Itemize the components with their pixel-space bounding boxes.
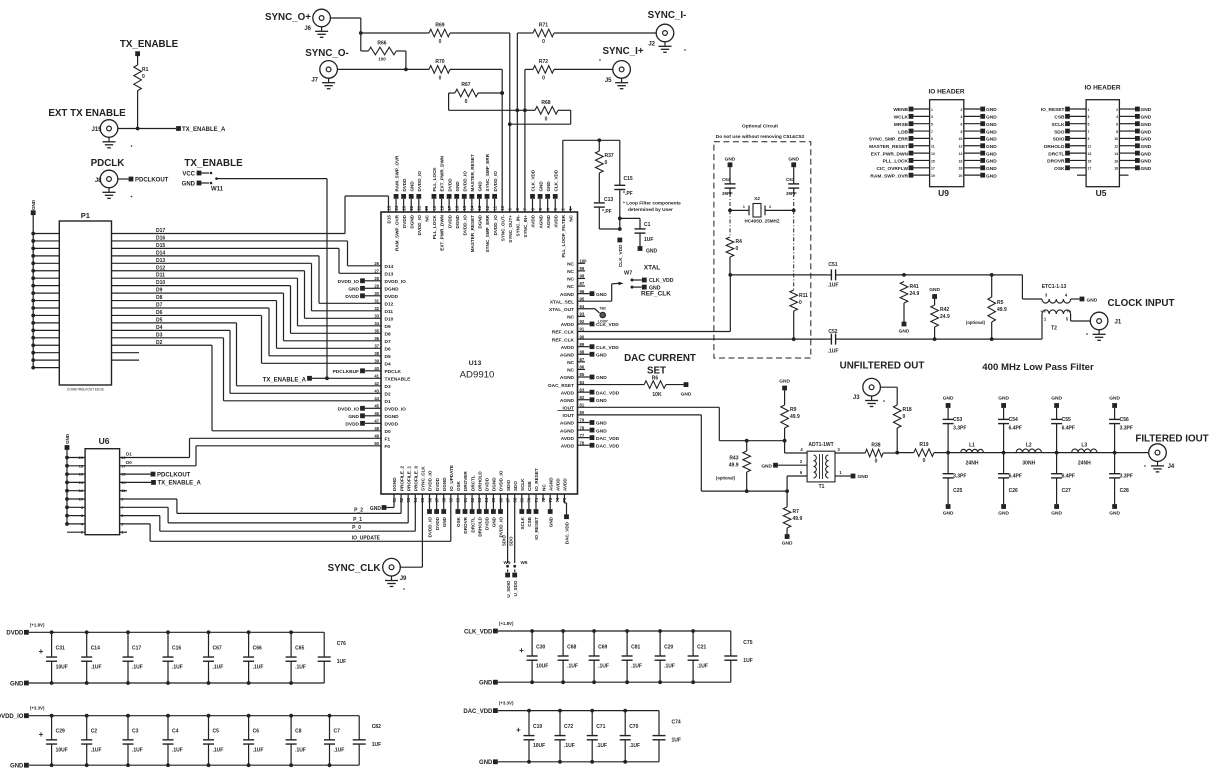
ground J4 bbox=[1144, 461, 1164, 472]
U5 left pin DRHOLD bbox=[1044, 143, 1091, 150]
svg-text:GND: GND bbox=[1141, 166, 1152, 172]
ground C26 (square) bbox=[998, 504, 1009, 516]
svg-text:GND: GND bbox=[409, 181, 414, 192]
wire D7 bus (P1 to U13 pin 38) bbox=[112, 303, 382, 356]
svg-text:24.9: 24.9 bbox=[940, 314, 950, 320]
svg-text:J5: J5 bbox=[605, 78, 612, 84]
svg-text:GND: GND bbox=[492, 516, 497, 527]
wire D4 bus (P1 to U13 pin 43) bbox=[112, 325, 382, 393]
U9 right pin GND bbox=[959, 151, 998, 158]
U13 bottom pin 52 PROFILE_2 bbox=[399, 466, 404, 503]
svg-text:SYNC_I-: SYNC_I- bbox=[648, 10, 687, 21]
capacitor C6 bbox=[243, 716, 263, 766]
svg-text:SYNC_SMP_ERR: SYNC_SMP_ERR bbox=[869, 137, 909, 143]
svg-text:GND: GND bbox=[929, 287, 940, 293]
svg-text:AVDD: AVDD bbox=[561, 390, 575, 396]
svg-text:AVDD: AVDD bbox=[561, 345, 575, 351]
svg-text:D4: D4 bbox=[385, 362, 391, 368]
svg-text:D2: D2 bbox=[385, 392, 391, 398]
svg-text:CIC_OVRFLW: CIC_OVRFLW bbox=[877, 166, 909, 172]
connector J6 SYNC_O+ bbox=[265, 9, 330, 32]
wire D12 bus (P1 to U13 pin 33) bbox=[112, 265, 382, 318]
svg-text:CLK_VDD: CLK_VDD bbox=[596, 345, 619, 351]
svg-text:AGND: AGND bbox=[560, 421, 575, 427]
svg-text:6.4PF: 6.4PF bbox=[1009, 474, 1022, 480]
svg-text:GND: GND bbox=[1141, 137, 1152, 143]
svg-text:2: 2 bbox=[1116, 108, 1118, 112]
U13 top pin 7 SYNC_IN+ bbox=[523, 208, 528, 238]
capacitor C19 bbox=[516, 711, 545, 762]
wire D9 bus (P1 to U13 pin 36) bbox=[112, 288, 382, 341]
svg-text:10UF: 10UF bbox=[56, 665, 68, 671]
svg-text:.1UF: .1UF bbox=[253, 665, 264, 671]
svg-text:C21: C21 bbox=[697, 645, 706, 651]
wire U6 left common bus bbox=[66, 450, 68, 526]
svg-text:100: 100 bbox=[378, 57, 386, 62]
svg-text:C1: C1 bbox=[644, 222, 651, 228]
svg-text:J3: J3 bbox=[853, 395, 860, 401]
svg-text:1UF: 1UF bbox=[672, 738, 681, 744]
svg-text:W5: W5 bbox=[504, 560, 511, 565]
svg-text:DVDD_IO: DVDD_IO bbox=[462, 171, 467, 192]
capacitor C75 bbox=[724, 631, 752, 682]
svg-text:R69: R69 bbox=[435, 23, 444, 29]
svg-text:EXT TX ENABLE: EXT TX ENABLE bbox=[48, 108, 126, 119]
U13 left pin 35 D8 bbox=[374, 329, 391, 338]
svg-text:CSB: CSB bbox=[527, 481, 532, 491]
wire TX_ENABLE_A stub from J15 bbox=[118, 126, 226, 133]
svg-text:GND: GND bbox=[182, 182, 196, 188]
svg-text:6.4PF: 6.4PF bbox=[1009, 426, 1022, 432]
U9 right pin GND bbox=[959, 165, 998, 172]
svg-text:12: 12 bbox=[959, 145, 963, 149]
svg-text:DVDD_IO: DVDD_IO bbox=[338, 279, 360, 285]
svg-text:DVDD: DVDD bbox=[402, 214, 407, 228]
svg-text:L3: L3 bbox=[1081, 443, 1087, 449]
net label CLK_VDD (bank CLK_VDD) bbox=[464, 621, 514, 635]
svg-text:DAC_VDD: DAC_VDD bbox=[596, 436, 620, 442]
svg-text:GND: GND bbox=[1109, 511, 1120, 517]
svg-text:TX_ENABLE: TX_ENABLE bbox=[120, 39, 179, 50]
svg-text:LDB: LDB bbox=[898, 129, 908, 135]
svg-text:16: 16 bbox=[959, 159, 963, 163]
capacitor C3 bbox=[123, 716, 143, 766]
inductor L3 bbox=[1072, 443, 1097, 467]
svg-text:J8: J8 bbox=[95, 178, 102, 184]
U13 top pin 3 AVDD bbox=[553, 169, 559, 228]
svg-text:C20: C20 bbox=[664, 645, 673, 651]
U13 right pin 85 AGND bbox=[560, 372, 607, 381]
U13 bottom pin 59 IO_UPDATE bbox=[449, 465, 454, 502]
svg-text:GND: GND bbox=[761, 463, 772, 469]
svg-text:GND: GND bbox=[986, 166, 997, 172]
wire P_1 net (U6 pin 7 to U13 pin 53) bbox=[120, 494, 409, 523]
U9 right pin GND bbox=[961, 114, 998, 121]
U9 right pin GND bbox=[959, 143, 998, 150]
svg-text:DGND: DGND bbox=[409, 214, 414, 228]
svg-text:DGND: DGND bbox=[385, 287, 400, 293]
svg-text:+: + bbox=[519, 646, 524, 655]
capacitor C72 bbox=[555, 711, 575, 762]
svg-text:DRCTL: DRCTL bbox=[470, 517, 475, 533]
svg-text:Do not use without removing C5: Do not use without removing C51&C52 bbox=[716, 134, 805, 140]
svg-text:DVDD: DVDD bbox=[447, 178, 452, 192]
svg-text:*.PF: *.PF bbox=[623, 191, 633, 197]
svg-text:OSK: OSK bbox=[456, 480, 461, 491]
svg-text:.1UF: .1UF bbox=[334, 747, 345, 753]
svg-text:C29: C29 bbox=[56, 728, 65, 734]
svg-text:D12: D12 bbox=[385, 302, 394, 308]
svg-text:REF_CLK: REF_CLK bbox=[552, 337, 575, 343]
wire P1 left common bus bbox=[32, 215, 34, 368]
wire IOUT pin 81 to T1 node bbox=[578, 407, 787, 442]
resistor R71 bbox=[533, 23, 554, 46]
svg-text:DGND: DGND bbox=[455, 214, 460, 228]
svg-text:IO_RESET: IO_RESET bbox=[1041, 107, 1065, 113]
svg-text:NC: NC bbox=[567, 368, 574, 374]
svg-text:D13: D13 bbox=[385, 272, 394, 278]
svg-text:D4: D4 bbox=[156, 325, 163, 331]
U13 top pin 2 PLL_LOOP_FILTER bbox=[561, 208, 566, 258]
crystal X2 HC49SD_25MHZ bbox=[728, 196, 796, 224]
svg-text:TXENABLE: TXENABLE bbox=[385, 377, 412, 383]
svg-text:10K: 10K bbox=[652, 392, 662, 398]
svg-text:IO_RESET: IO_RESET bbox=[534, 517, 539, 540]
U5 right pin GND bbox=[1114, 143, 1151, 150]
svg-text:GND: GND bbox=[1141, 151, 1152, 157]
U13 top pin 25 D15 bbox=[386, 205, 391, 223]
U13 left pin 28 DVDD_IO bbox=[338, 276, 406, 285]
svg-text:D2: D2 bbox=[156, 340, 163, 346]
svg-text:4: 4 bbox=[1116, 115, 1118, 119]
U13 bottom pin 60 OSK bbox=[456, 480, 462, 527]
capacitor C74 bbox=[653, 711, 681, 762]
svg-text:IO_UPDATE: IO_UPDATE bbox=[449, 465, 454, 491]
svg-text:IO HEADER: IO HEADER bbox=[928, 89, 964, 96]
U13 left pin 27 D13 bbox=[374, 269, 393, 278]
svg-text:D0: D0 bbox=[126, 460, 132, 465]
U6 right pin 19 wire (D1 net to U13 pin 49) bbox=[120, 438, 381, 460]
svg-text:C56: C56 bbox=[1120, 417, 1129, 423]
U5 right pin GND bbox=[1116, 107, 1152, 114]
U13 top pin 8 SYNC_IN- bbox=[515, 208, 520, 237]
svg-text:C76: C76 bbox=[337, 641, 346, 647]
U13 left pin 44 D1 bbox=[374, 396, 391, 405]
svg-text:NC: NC bbox=[567, 360, 574, 366]
svg-text:20: 20 bbox=[79, 455, 84, 460]
svg-text:SYNC_O-: SYNC_O- bbox=[305, 48, 349, 59]
svg-text:U5: U5 bbox=[1096, 188, 1107, 198]
resistor R1 bbox=[134, 56, 149, 129]
svg-text:D11: D11 bbox=[385, 309, 394, 315]
svg-text:GND: GND bbox=[779, 379, 790, 385]
svg-text:.1UF: .1UF bbox=[828, 283, 839, 289]
svg-text:49.9: 49.9 bbox=[729, 463, 739, 469]
capacitor C29 bbox=[39, 716, 68, 766]
net label GND (bank DVDD_IO) bbox=[10, 763, 29, 770]
U6 left pin 12 bbox=[65, 488, 85, 493]
svg-text:AGND: AGND bbox=[560, 352, 575, 358]
svg-text:.1UF: .1UF bbox=[629, 743, 640, 749]
U6 right pin 11 stub bbox=[120, 488, 127, 493]
svg-text:18: 18 bbox=[79, 463, 84, 468]
svg-text:C55: C55 bbox=[1062, 417, 1071, 423]
svg-text:SCLK: SCLK bbox=[520, 478, 525, 491]
capacitor C63 bbox=[786, 167, 799, 290]
svg-text:DGND: DGND bbox=[392, 477, 397, 491]
svg-text:D17: D17 bbox=[156, 228, 165, 234]
U9 left pin PLL_LOCK bbox=[883, 158, 935, 165]
svg-text:DROVR: DROVR bbox=[463, 516, 468, 533]
svg-text:D15: D15 bbox=[156, 243, 165, 249]
svg-text:L2: L2 bbox=[1026, 443, 1032, 449]
U13 top pin 6 AVDD bbox=[530, 169, 536, 228]
wire U13 pin 2 PLL_LOOP_FILTER up bbox=[563, 138, 620, 212]
U13 bottom pin 71 IO_RESET bbox=[534, 468, 540, 540]
svg-text:17: 17 bbox=[121, 463, 126, 468]
svg-text:C63: C63 bbox=[786, 177, 795, 182]
U13 bottom pin 72 NC bbox=[541, 484, 546, 503]
jumper W7 XTAL select bbox=[578, 271, 674, 302]
svg-text:6: 6 bbox=[1116, 123, 1118, 127]
svg-text:T1: T1 bbox=[819, 484, 825, 490]
capacitor C71 bbox=[587, 711, 607, 762]
svg-text:C15: C15 bbox=[624, 176, 633, 182]
svg-text:TX_ENABLE: TX_ENABLE bbox=[184, 158, 243, 169]
U13 right pin 98 NC bbox=[567, 274, 585, 283]
svg-text:R42: R42 bbox=[940, 307, 949, 313]
U5 right pin GND bbox=[1114, 165, 1151, 172]
U5 right pin GND bbox=[1116, 114, 1152, 121]
svg-text:.1UF: .1UF bbox=[132, 747, 143, 753]
svg-text:SYNC_O+: SYNC_O+ bbox=[265, 12, 311, 23]
wire D16 bus (P1 to U13 pin 26) bbox=[112, 235, 382, 265]
svg-text:IO_UPDATE: IO_UPDATE bbox=[352, 535, 381, 541]
capacitor C82 bbox=[353, 716, 381, 766]
svg-text:GND: GND bbox=[479, 681, 493, 687]
connector J2 SYNC_I- bbox=[554, 10, 686, 48]
U5 right pin GND bbox=[1114, 136, 1151, 143]
svg-text:C17: C17 bbox=[132, 646, 141, 652]
svg-text:15: 15 bbox=[931, 159, 935, 163]
ground J7 bbox=[322, 78, 335, 89]
connector J7 SYNC_O- bbox=[305, 48, 349, 84]
U13 top pin 19 PLL_LOCK bbox=[432, 167, 438, 240]
resistor R4 bbox=[726, 237, 742, 275]
svg-text:DVDD: DVDD bbox=[485, 477, 490, 491]
svg-text:P_0: P_0 bbox=[352, 525, 361, 531]
svg-text:.1UF: .1UF bbox=[213, 665, 224, 671]
svg-text:R19: R19 bbox=[919, 442, 928, 448]
transformer T1 ADT1-1WT bbox=[778, 441, 865, 491]
U13 right pin 94 XTAL_OUT bbox=[549, 304, 585, 313]
wire PDCLKOUT stub from J8 bbox=[118, 177, 169, 184]
U13 left pin 43 D2 bbox=[374, 389, 391, 398]
test point LOOP at pin 94 bbox=[578, 307, 609, 324]
svg-text:GND: GND bbox=[986, 115, 997, 121]
svg-text:CLK_VDD: CLK_VDD bbox=[618, 244, 624, 267]
U13 right pin 96 AGND bbox=[560, 289, 607, 298]
svg-text:GND: GND bbox=[596, 428, 607, 434]
net label TX_ENABLE (top) bbox=[120, 39, 179, 56]
svg-text:SYNC_IN-: SYNC_IN- bbox=[516, 215, 521, 237]
U6 left pin 14 bbox=[65, 480, 85, 485]
U13 top pin 22 DGND bbox=[409, 181, 415, 229]
svg-text:.1UF: .1UF bbox=[172, 665, 183, 671]
svg-text:R38: R38 bbox=[871, 443, 880, 449]
U13 left pin 50 F0 bbox=[374, 441, 390, 450]
note loop filter bbox=[623, 201, 681, 214]
net label DAC_VDD (bank DAC_VDD) bbox=[463, 701, 514, 715]
svg-text:GND: GND bbox=[538, 181, 543, 192]
resistor R70 bbox=[429, 59, 450, 82]
capacitor C4 bbox=[163, 716, 183, 766]
wire P1 spare stub 16 bbox=[112, 352, 140, 354]
capacitor C31 bbox=[39, 632, 68, 683]
svg-text:6: 6 bbox=[961, 123, 963, 127]
svg-text:17: 17 bbox=[1088, 167, 1092, 171]
wire C51 node horizontal bbox=[730, 274, 826, 276]
ground C28 (square) bbox=[1109, 504, 1120, 516]
svg-text:GND: GND bbox=[1141, 159, 1152, 165]
svg-text:1UF: 1UF bbox=[743, 658, 752, 664]
svg-text:DVDD_IO: DVDD_IO bbox=[417, 215, 422, 236]
wire J6 to R69 node bbox=[330, 18, 429, 35]
svg-text:C28: C28 bbox=[1120, 488, 1129, 494]
ground R9 (square) bbox=[779, 379, 790, 391]
svg-text:.1UF: .1UF bbox=[132, 665, 143, 671]
svg-text:NC: NC bbox=[569, 214, 574, 221]
svg-text:GND: GND bbox=[986, 107, 997, 113]
U13 top pin 17 DVDD bbox=[447, 178, 453, 228]
svg-text:5: 5 bbox=[1088, 123, 1090, 127]
U13 top pin 12 SYNC_SMP_ERR bbox=[485, 153, 491, 252]
wire IOUT-bar pin 80 to T1 node bbox=[578, 415, 789, 493]
svg-text:CLK_VDD: CLK_VDD bbox=[531, 169, 536, 191]
U13 left pin 38 D5 bbox=[374, 351, 391, 360]
U13 top pin 18 EXT_PWR_DWN bbox=[439, 155, 445, 251]
svg-text:C19: C19 bbox=[533, 724, 542, 730]
svg-text:SDIO: SDIO bbox=[502, 535, 507, 546]
svg-text:DVDD: DVDD bbox=[435, 477, 440, 491]
svg-text:0: 0 bbox=[875, 459, 878, 465]
svg-text:DRCTL: DRCTL bbox=[470, 475, 475, 491]
ground R7 (square) bbox=[782, 534, 793, 546]
svg-text:R6: R6 bbox=[652, 376, 659, 382]
svg-text:400 MHz Low Pass Filter: 400 MHz Low Pass Filter bbox=[982, 362, 1094, 373]
wire P_0 net (U6 pin 5 to U13 pin 54) bbox=[120, 494, 416, 531]
wire DAC_VDD bottom rail bbox=[498, 760, 659, 764]
svg-text:.1UF: .1UF bbox=[253, 747, 264, 753]
svg-text:REF_CLK: REF_CLK bbox=[641, 291, 671, 298]
net label DAC_VDD at pin 75 (square) bbox=[564, 494, 570, 544]
svg-text:18: 18 bbox=[959, 167, 963, 171]
svg-text:AVDD: AVDD bbox=[553, 214, 558, 227]
wire P1 left pin stub row 5 + junction bbox=[31, 261, 59, 265]
svg-text:0: 0 bbox=[542, 75, 545, 81]
svg-text:C30: C30 bbox=[536, 645, 545, 651]
svg-text:C26: C26 bbox=[1009, 488, 1018, 494]
U13 bottom pin 55 SYNC_CLK bbox=[420, 466, 425, 503]
svg-text:DRHOLD: DRHOLD bbox=[477, 516, 482, 536]
capacitor C1 bbox=[620, 218, 654, 246]
resistor R11 bbox=[790, 290, 808, 341]
svg-text:DAC_VDD: DAC_VDD bbox=[463, 709, 493, 715]
wire filter main line bbox=[934, 452, 1149, 454]
ground R6 (square) bbox=[681, 382, 692, 397]
svg-text:EXT_PWR_DWN: EXT_PWR_DWN bbox=[440, 214, 445, 250]
U13 right pin 77 AVDD bbox=[561, 433, 620, 442]
U13 top pin 1 NC bbox=[568, 206, 573, 222]
svg-text:CLK_VDD: CLK_VDD bbox=[649, 278, 674, 284]
U9 left pin MRSB bbox=[894, 121, 933, 128]
svg-text:0: 0 bbox=[465, 99, 468, 105]
svg-text:P_2: P_2 bbox=[354, 507, 363, 513]
svg-text:GND: GND bbox=[986, 173, 997, 179]
svg-text:12: 12 bbox=[79, 488, 84, 493]
svg-text:.1UF: .1UF bbox=[596, 743, 607, 749]
wire CLK_VDD top rail bbox=[498, 629, 731, 633]
svg-text:.1UF: .1UF bbox=[295, 747, 306, 753]
svg-text:.1UF: .1UF bbox=[564, 743, 575, 749]
U5 right pin GND bbox=[1116, 129, 1152, 136]
svg-text:GND: GND bbox=[646, 249, 658, 255]
svg-text:U_SDO: U_SDO bbox=[513, 580, 518, 596]
U13 bottom pin 68 SDO bbox=[513, 481, 518, 503]
wire C51 to transformer T2 bbox=[841, 273, 1042, 299]
svg-text:GND: GND bbox=[1051, 511, 1062, 517]
svg-text:D16: D16 bbox=[156, 235, 165, 241]
U9 left pin SYNC_SMP_ERR bbox=[869, 136, 933, 143]
IC U9 IO HEADER body bbox=[928, 89, 964, 199]
ground C55 (square) bbox=[1051, 396, 1062, 408]
ground J5 bbox=[599, 59, 628, 88]
resistor R38 bbox=[865, 443, 897, 465]
svg-text:10UF: 10UF bbox=[533, 743, 545, 749]
resistor R43 bbox=[716, 441, 751, 491]
svg-text:EXT_PWR_DWN: EXT_PWR_DWN bbox=[440, 155, 445, 191]
capacitor C2 bbox=[81, 716, 101, 766]
svg-text:C5: C5 bbox=[213, 728, 220, 734]
svg-text:C25: C25 bbox=[953, 488, 962, 494]
svg-text:19: 19 bbox=[931, 174, 935, 178]
svg-text:14: 14 bbox=[1114, 152, 1118, 156]
svg-text:GND: GND bbox=[1141, 122, 1152, 128]
svg-text:C53: C53 bbox=[953, 417, 962, 423]
svg-text:3: 3 bbox=[1088, 115, 1090, 119]
capacitor C20 bbox=[655, 631, 675, 682]
svg-text:U_SDIO: U_SDIO bbox=[506, 580, 511, 598]
U13 top pin 5 AGND bbox=[538, 181, 544, 229]
U6 right pin 1 stub bbox=[120, 530, 127, 535]
wire D17 bus (P1 to U13 top pin 25) bbox=[112, 196, 389, 234]
svg-text:W11: W11 bbox=[211, 187, 224, 193]
ground J3 bbox=[865, 396, 885, 407]
svg-text:30NH: 30NH bbox=[1022, 461, 1035, 467]
U13 top pin 20 NC bbox=[424, 205, 429, 221]
U9 left pin RAM_SWP_OVR bbox=[870, 173, 934, 180]
svg-text:D1: D1 bbox=[126, 452, 132, 457]
svg-text:D9: D9 bbox=[156, 288, 163, 294]
svg-text:NC: NC bbox=[541, 484, 546, 491]
svg-text:0: 0 bbox=[799, 300, 802, 306]
svg-text:PDCLKOUT: PDCLKOUT bbox=[157, 472, 191, 478]
svg-text:PROFILE_1: PROFILE_1 bbox=[406, 466, 411, 491]
capacitor C64 bbox=[722, 167, 736, 237]
connector J5 SYNC_I+ bbox=[554, 46, 644, 84]
svg-text:DVDD_IO: DVDD_IO bbox=[499, 470, 504, 491]
svg-text:F1: F1 bbox=[385, 437, 391, 443]
